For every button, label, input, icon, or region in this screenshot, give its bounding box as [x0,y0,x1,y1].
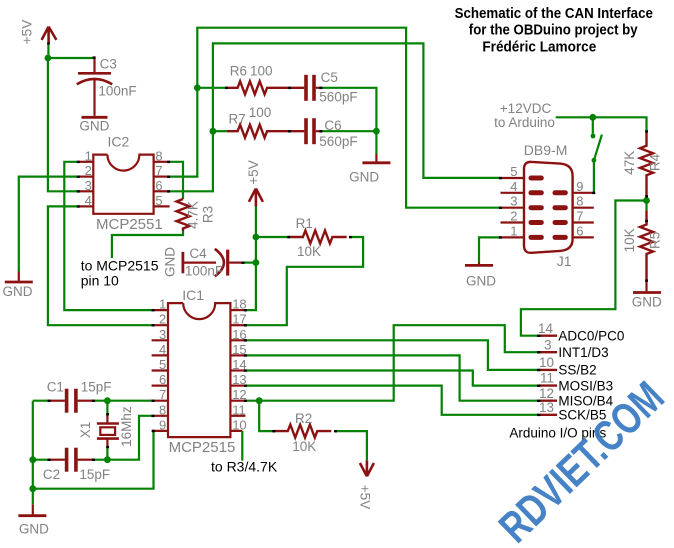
svg-text:SS/B2: SS/B2 [558,363,596,378]
svg-text:5: 5 [510,164,517,179]
svg-text:to R3/4.7K: to R3/4.7K [211,459,278,475]
svg-text:9: 9 [159,417,166,432]
svg-text:C4: C4 [189,246,207,261]
svg-text:2: 2 [85,163,92,178]
svg-text:GND: GND [632,295,662,310]
svg-text:+12VDC: +12VDC [500,101,552,116]
svg-text:13: 13 [539,400,554,415]
resistor R5 [640,211,653,283]
wire C2 right to IC1 pin8 [93,416,151,460]
wire IC2 pin8 to R3 [169,162,183,199]
svg-text:15pF: 15pF [81,379,112,394]
svg-text:GND: GND [3,284,33,299]
svg-text:R1: R1 [296,216,313,231]
IC2 pin 6 [154,190,169,192]
svg-text:+5V: +5V [20,20,35,44]
wire IC1 pin15 to MISO/B4 [245,355,538,400]
svg-text:12: 12 [539,386,554,401]
crystal X1 [97,414,119,447]
node C1/X1 junction [104,397,111,404]
svg-text:to Arduino: to Arduino [494,115,555,130]
svg-text:Frédéric Lamorce: Frédéric Lamorce [482,39,596,55]
resistor R1 [289,231,347,244]
capacitor C3 [77,58,112,116]
svg-text:C1: C1 [47,379,64,394]
Arduino pin number labels [538,321,554,415]
resistor R2 [274,425,331,438]
svg-text:pin 10: pin 10 [81,273,119,289]
IC2 pin 8 [154,161,169,163]
DB9 pin 3 [501,207,525,209]
svg-text:560pF: 560pF [319,134,357,149]
IC2 pin 4 [78,205,93,207]
svg-text:11: 11 [232,402,246,417]
DB9 pin 5 [501,177,525,179]
svg-text:2: 2 [159,312,166,327]
node C5/C6 GND junction [373,128,380,135]
svg-text:X1: X1 [78,422,93,439]
wire junction to R1 [256,236,289,238]
node switch junction [589,114,596,121]
svg-text:C2: C2 [43,467,60,482]
wire DB9 pin1 to ground [479,237,501,262]
wire IC2 pin1 to IC1 pin1 [64,162,151,310]
wire X1 bottom stub [106,448,108,460]
IC2 pin 1 [78,161,93,163]
svg-text:+5V: +5V [358,485,373,509]
DB9 pin 8 [573,207,594,209]
wire junction to ground [375,131,377,154]
svg-text:6: 6 [576,223,583,238]
svg-text:C5: C5 [321,70,338,85]
node R1 junction [253,234,260,241]
wire IC1 pin13 to SCK/B5 [245,386,538,415]
switch S1 pole stub [592,117,594,134]
DB9 pin 1 [501,236,525,238]
node C2 left junction [29,456,36,463]
svg-text:R3: R3 [201,206,216,223]
svg-text:Schematic of the CAN Interface: Schematic of the CAN Interface [455,6,653,22]
svg-text:10K: 10K [297,244,321,259]
svg-text:15pF: 15pF [79,467,110,482]
IC2 pin number labels [85,148,163,208]
svg-text:GND: GND [19,522,49,537]
IC2 pin 3 [78,190,93,192]
resistor R7 [227,125,304,138]
svg-text:8: 8 [159,402,166,417]
DB9 pin 9 [573,192,594,194]
wire C6 right to GND junction [321,130,376,132]
wire C4 to junction [243,262,256,264]
svg-text:5: 5 [159,357,166,372]
svg-text:1: 1 [159,297,166,312]
svg-text:3: 3 [85,178,92,193]
capacitor C2 [49,448,93,472]
ground bottom left [18,504,49,536]
wire junction to C3 [48,57,94,59]
svg-text:10K: 10K [622,228,637,252]
svg-text:R6: R6 [230,64,247,79]
switch S1 contact dot [591,134,596,139]
svg-text:R5: R5 [648,232,663,249]
wire IC1 pin10 dangle [241,431,243,461]
svg-text:IC2: IC2 [108,134,130,150]
svg-text:7: 7 [159,387,166,402]
svg-text:1: 1 [510,223,517,238]
svg-text:1: 1 [85,148,92,163]
wire R3 bottom to dangling annotation [112,231,183,258]
svg-text:MCP2515: MCP2515 [169,439,236,456]
svg-text:R7: R7 [229,112,246,127]
IC2 pin 7 [154,176,169,178]
svg-text:100nF: 100nF [185,264,223,279]
wire +5V to IC2 pin3 [48,58,78,191]
svg-text:7: 7 [155,163,162,178]
wire R4 bottom to junction to R5 [645,196,647,210]
ground for C4 (rotated) [163,247,183,277]
wire switch to DB9 pin9 [593,160,595,193]
svg-text:10K: 10K [292,439,316,454]
svg-text:J1: J1 [557,253,572,269]
pin connection ticks [47,42,648,461]
svg-text:to MCP2515: to MCP2515 [81,258,159,274]
svg-text:2: 2 [510,209,517,224]
gray label +12VDC [494,101,555,130]
resistor R6 [227,81,305,94]
wire +5V vertical to IC1 pin18 [245,207,256,311]
annotation text to MCP2515 pin 10 [81,258,159,289]
svg-text:8: 8 [155,148,162,163]
wire C1 left / C2 left / GND vertical [33,401,49,505]
wire IC1 pin14 to MOSI/B3 [245,371,538,386]
svg-text:11: 11 [540,371,554,386]
wire IC1 pin16 to SS/B2 [245,340,538,370]
svg-text:ADC0/PC0: ADC0/PC0 [558,329,624,344]
wire R4/R5 junction to ADC0/PC0 [521,201,647,336]
resistor R3 [177,199,190,231]
ground for C5/C6 [349,154,390,185]
wire IC2 pin2 to ground [19,177,79,272]
supply +5V P2 (above R1) [249,189,263,207]
wire +5V stem to junction [47,43,49,58]
svg-text:4: 4 [159,342,166,357]
svg-text:9: 9 [576,179,583,194]
svg-text:100: 100 [249,105,272,120]
DB9 pin 4 [501,192,525,194]
svg-text:7: 7 [576,209,583,224]
wire CANH net (IC2 pin7 - R6 - DB9 pin3) [169,28,501,208]
title text [455,6,653,55]
wire R2 right to +5V [336,431,367,460]
svg-text:560pF: 560pF [319,90,357,105]
svg-text:MCP2551: MCP2551 [96,216,163,233]
node C2/X1 junction [104,456,111,463]
svg-text:+5V: +5V [246,160,261,184]
IC1 right pins 18-10 [230,310,245,431]
switch S1 bottom contact dot [592,158,597,163]
op-amp/transceiver IC2 body [93,155,153,214]
svg-text:IC1: IC1 [182,287,204,303]
wire IC1 pin12 to INT1/D3 [245,325,538,401]
svg-text:GND: GND [79,119,109,134]
switch S1 blade [594,135,602,161]
svg-text:3: 3 [159,327,166,342]
svg-text:R4: R4 [648,153,663,171]
resistor R4 [640,131,653,196]
svg-text:4: 4 [85,193,92,208]
svg-text:DB9-M: DB9-M [524,142,568,158]
ground for DB9 [465,263,496,289]
IC U1 MCP2515 body [168,303,230,437]
svg-text:10: 10 [539,355,554,370]
DB9 pin 2 [501,221,525,223]
IC1 pin number labels [159,297,247,433]
svg-text:5: 5 [155,193,162,208]
svg-text:100: 100 [250,64,273,79]
IC2 pin 2 [78,176,93,178]
node R6 junction [194,84,201,91]
supply +5V P1 (top left) [42,27,57,44]
svg-text:GND: GND [163,247,178,277]
svg-text:47K: 47K [622,151,637,175]
ground for IC2 pin2 [3,272,33,300]
ground for C3 [82,116,108,119]
wire junction to R7 [213,130,227,132]
Arduino I/O pin stubs [539,336,557,415]
wire CANL net (IC2 pin6 - R7 - DB9 pin5) [169,43,501,191]
svg-text:16Mhz: 16Mhz [119,406,134,447]
svg-text:INT1/D3: INT1/D3 [558,345,608,360]
node GND junction bottom left [29,485,36,492]
wire R1 right to IC1 pin17 [245,237,363,325]
ground for R5 [632,282,662,310]
svg-text:R2: R2 [295,411,312,426]
Arduino pin name labels [558,329,624,423]
svg-text:C3: C3 [100,57,117,72]
svg-text:100nF: 100nF [98,84,136,99]
svg-text:3: 3 [510,194,517,209]
wire IC1 pin9 to GND net [33,431,154,489]
wire C1 right to IC1 pin7 [93,400,151,402]
svg-text:8: 8 [576,194,583,209]
capacitor C5 [306,75,321,101]
capacitor C1 [49,389,93,413]
DB9 left pads [531,178,565,237]
svg-text:GND: GND [466,273,496,288]
DB9 pin 6 [573,236,594,238]
svg-text:3: 3 [544,337,552,352]
svg-text:4.7K: 4.7K [186,201,201,229]
svg-text:4: 4 [510,179,517,194]
node R2 junction on pin12 net [256,397,263,404]
svg-text:6: 6 [159,372,166,387]
node C4 junction [253,259,260,266]
wire junction to R6 [197,87,226,89]
svg-text:MOSI/B3: MOSI/B3 [558,378,613,393]
IC2 pin 5 [154,205,170,207]
svg-text:6: 6 [155,178,162,193]
capacitor C4 [183,249,243,277]
wire junction down to R2 [259,401,274,431]
node R7 junction [210,128,217,135]
wire X1 top stub [106,401,108,415]
node +5V junction [45,55,52,62]
wire IC2 pin4 to IC1 pin2 [48,206,152,325]
svg-text:14: 14 [538,321,554,336]
svg-text:for the OBDuino project by: for the OBDuino project by [469,23,638,39]
supply +5V P3 (inverted, below R2) [360,460,374,476]
node R4/R5 junction [643,197,650,204]
wire C5 right to GND junction [321,88,376,131]
IC1 left pins 1-9 [152,310,168,431]
svg-text:GND: GND [349,170,379,185]
connector J1 DB9-M outline [524,162,573,253]
DB9 pin 7 [573,221,594,223]
svg-text:10: 10 [232,417,246,432]
wire +12VDC to R4 [556,117,647,131]
capacitor C6 [306,118,321,144]
DB9 pin number labels [510,164,583,238]
